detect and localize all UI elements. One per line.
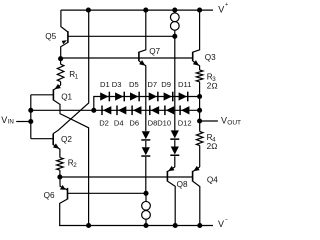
label R4: [207, 133, 217, 144]
label D8: [148, 118, 158, 127]
label D4: [114, 118, 124, 127]
wire clamp column left upper: [145, 130, 147, 132]
wire V+ rail: [61, 9, 213, 11]
label D11: [178, 80, 191, 89]
node junction top rail x199: [197, 8, 202, 13]
svg-text:2Ω: 2Ω: [207, 142, 218, 151]
svg-text:2: 2: [73, 162, 77, 169]
resistor R4: [196, 121, 203, 167]
svg-text:D2: D2: [99, 118, 109, 127]
transistor Q5: [61, 10, 68, 59]
svg-text:D10: D10: [157, 118, 171, 127]
label Q6: [44, 191, 55, 200]
transistor Q6: [60, 177, 213, 226]
label D9: [161, 80, 171, 89]
label D12: [178, 118, 192, 127]
wire Q1 base: [31, 94, 54, 96]
svg-text:Q8: Q8: [177, 180, 188, 189]
svg-text:D5: D5: [129, 80, 139, 89]
transistor Q3: [193, 10, 200, 70]
label D3: [112, 80, 122, 89]
diode D6: [132, 106, 141, 116]
svg-text:D12: D12: [178, 118, 192, 127]
label Q5: [45, 32, 56, 41]
port VOUT: [221, 115, 241, 126]
label R4 value 2ohm: [207, 142, 218, 151]
label D7: [147, 80, 157, 89]
svg-text:Q3: Q3: [205, 53, 216, 62]
wire Q2 base: [31, 138, 53, 140]
node input upper junction: [28, 108, 33, 113]
label R3: [207, 73, 217, 84]
node junction top rail x88: [86, 8, 91, 13]
node VOUT junction: [197, 118, 202, 123]
node junction top rail x146: [143, 8, 148, 13]
node junction bottom rail x88: [86, 223, 91, 228]
svg-text:IN: IN: [8, 119, 14, 126]
label Q3: [205, 53, 216, 62]
svg-text:D4: D4: [114, 118, 124, 127]
label R3 value 2ohm: [207, 82, 218, 91]
node diode rows left junction: [91, 108, 96, 113]
svg-text:D9: D9: [161, 80, 171, 89]
diode D7: [149, 92, 158, 102]
node junction bottom rail x146: [143, 223, 148, 228]
svg-text:1: 1: [75, 74, 79, 81]
current source I1: [170, 10, 179, 36]
svg-text:D7: D7: [147, 80, 157, 89]
label D10: [157, 118, 171, 127]
resistor R3: [196, 70, 203, 97]
svg-text:Q6: Q6: [44, 191, 55, 200]
wire input node to diode node: [31, 109, 94, 111]
svg-text:D1: D1: [100, 80, 110, 89]
svg-text:D6: D6: [129, 118, 139, 127]
node junction top rail x175: [172, 8, 177, 13]
svg-text:+: +: [225, 2, 228, 8]
node A junction: [58, 56, 63, 61]
diode D2: [102, 106, 111, 116]
diode D8: [150, 106, 159, 116]
transistor Q1: [53, 84, 88, 226]
svg-text:OUT: OUT: [227, 119, 241, 126]
svg-text:V: V: [1, 115, 7, 125]
svg-text:D11: D11: [178, 80, 191, 89]
label Q4: [207, 175, 218, 184]
transistor Q8: [167, 166, 175, 226]
diode D5: [130, 92, 139, 102]
diode D10: [165, 106, 174, 116]
transistor Q7: [139, 10, 146, 131]
label Q8: [177, 180, 188, 189]
label R1: [69, 70, 79, 81]
svg-text:V: V: [218, 219, 224, 229]
label D6: [129, 118, 139, 127]
wire diode row bottom: [94, 109, 200, 111]
wire output column lower: [199, 110, 201, 121]
current source I2: [142, 193, 151, 225]
wire clamp column right mid: [174, 140, 176, 146]
node diode row bottom right junction: [197, 108, 202, 113]
node junction bottom rail x175: [173, 223, 178, 228]
node input lower junction: [28, 119, 33, 124]
diode clamp D16: [170, 147, 179, 156]
wire Q6 base to bottom current source: [68, 192, 147, 194]
net label V+: [218, 2, 228, 14]
svg-text:2Ω: 2Ω: [207, 82, 218, 91]
svg-text:−: −: [225, 217, 228, 223]
resistor R2: [57, 158, 64, 177]
diode D4: [117, 106, 126, 116]
label Q2: [61, 135, 72, 144]
svg-text:Q5: Q5: [45, 32, 56, 41]
wire clamp column right upper: [174, 36, 176, 130]
label Q7: [149, 47, 160, 56]
diode clamp D14: [141, 147, 150, 156]
svg-text:D8: D8: [148, 118, 158, 127]
wire input bus vertical: [30, 95, 32, 139]
label D5: [129, 80, 139, 89]
diode D11: [179, 92, 188, 102]
label Q1: [61, 92, 72, 101]
diode D3: [115, 92, 124, 102]
node junction bottom rail x199: [197, 223, 202, 228]
wire VOUT lead: [200, 120, 218, 122]
diode D9: [164, 92, 173, 102]
wire node A to Q3/Q7 bases: [61, 57, 193, 59]
transistor Q4: [193, 166, 200, 226]
wire clamp column right lower: [174, 156, 176, 167]
port VIN: [1, 115, 14, 126]
label R2: [68, 159, 78, 170]
node Q6 base junction: [143, 191, 148, 196]
wire Q5 base to N1: [68, 35, 175, 37]
svg-text:V: V: [221, 115, 227, 125]
svg-text:Q2: Q2: [61, 135, 72, 144]
wire clamp column left lower: [145, 157, 147, 193]
node VOUT upper junction (R3 bottom): [197, 94, 202, 99]
wire clamp column left mid: [145, 141, 147, 147]
transistor Q2: [53, 10, 89, 158]
wire VIN lead: [16, 121, 31, 123]
svg-text:Q7: Q7: [149, 47, 160, 56]
node B junction: [57, 174, 62, 179]
svg-text:Q4: Q4: [207, 175, 218, 184]
diode D1: [100, 92, 109, 102]
label D1: [100, 80, 110, 89]
diode clamp D13: [141, 131, 150, 140]
svg-text:Q1: Q1: [61, 92, 72, 101]
node N1 (Q5 base / top current source): [172, 34, 177, 39]
wire node B to Q8/Q4 bases: [60, 176, 193, 178]
diode D12: [180, 106, 189, 116]
svg-text:V: V: [218, 4, 224, 14]
resistor R1: [57, 59, 64, 85]
svg-text:D3: D3: [112, 80, 122, 89]
label D2: [99, 118, 109, 127]
wire diode row top: [94, 97, 200, 111]
wire output column upper: [199, 97, 201, 111]
diode clamp D15: [170, 130, 179, 139]
net label V-: [218, 217, 228, 229]
